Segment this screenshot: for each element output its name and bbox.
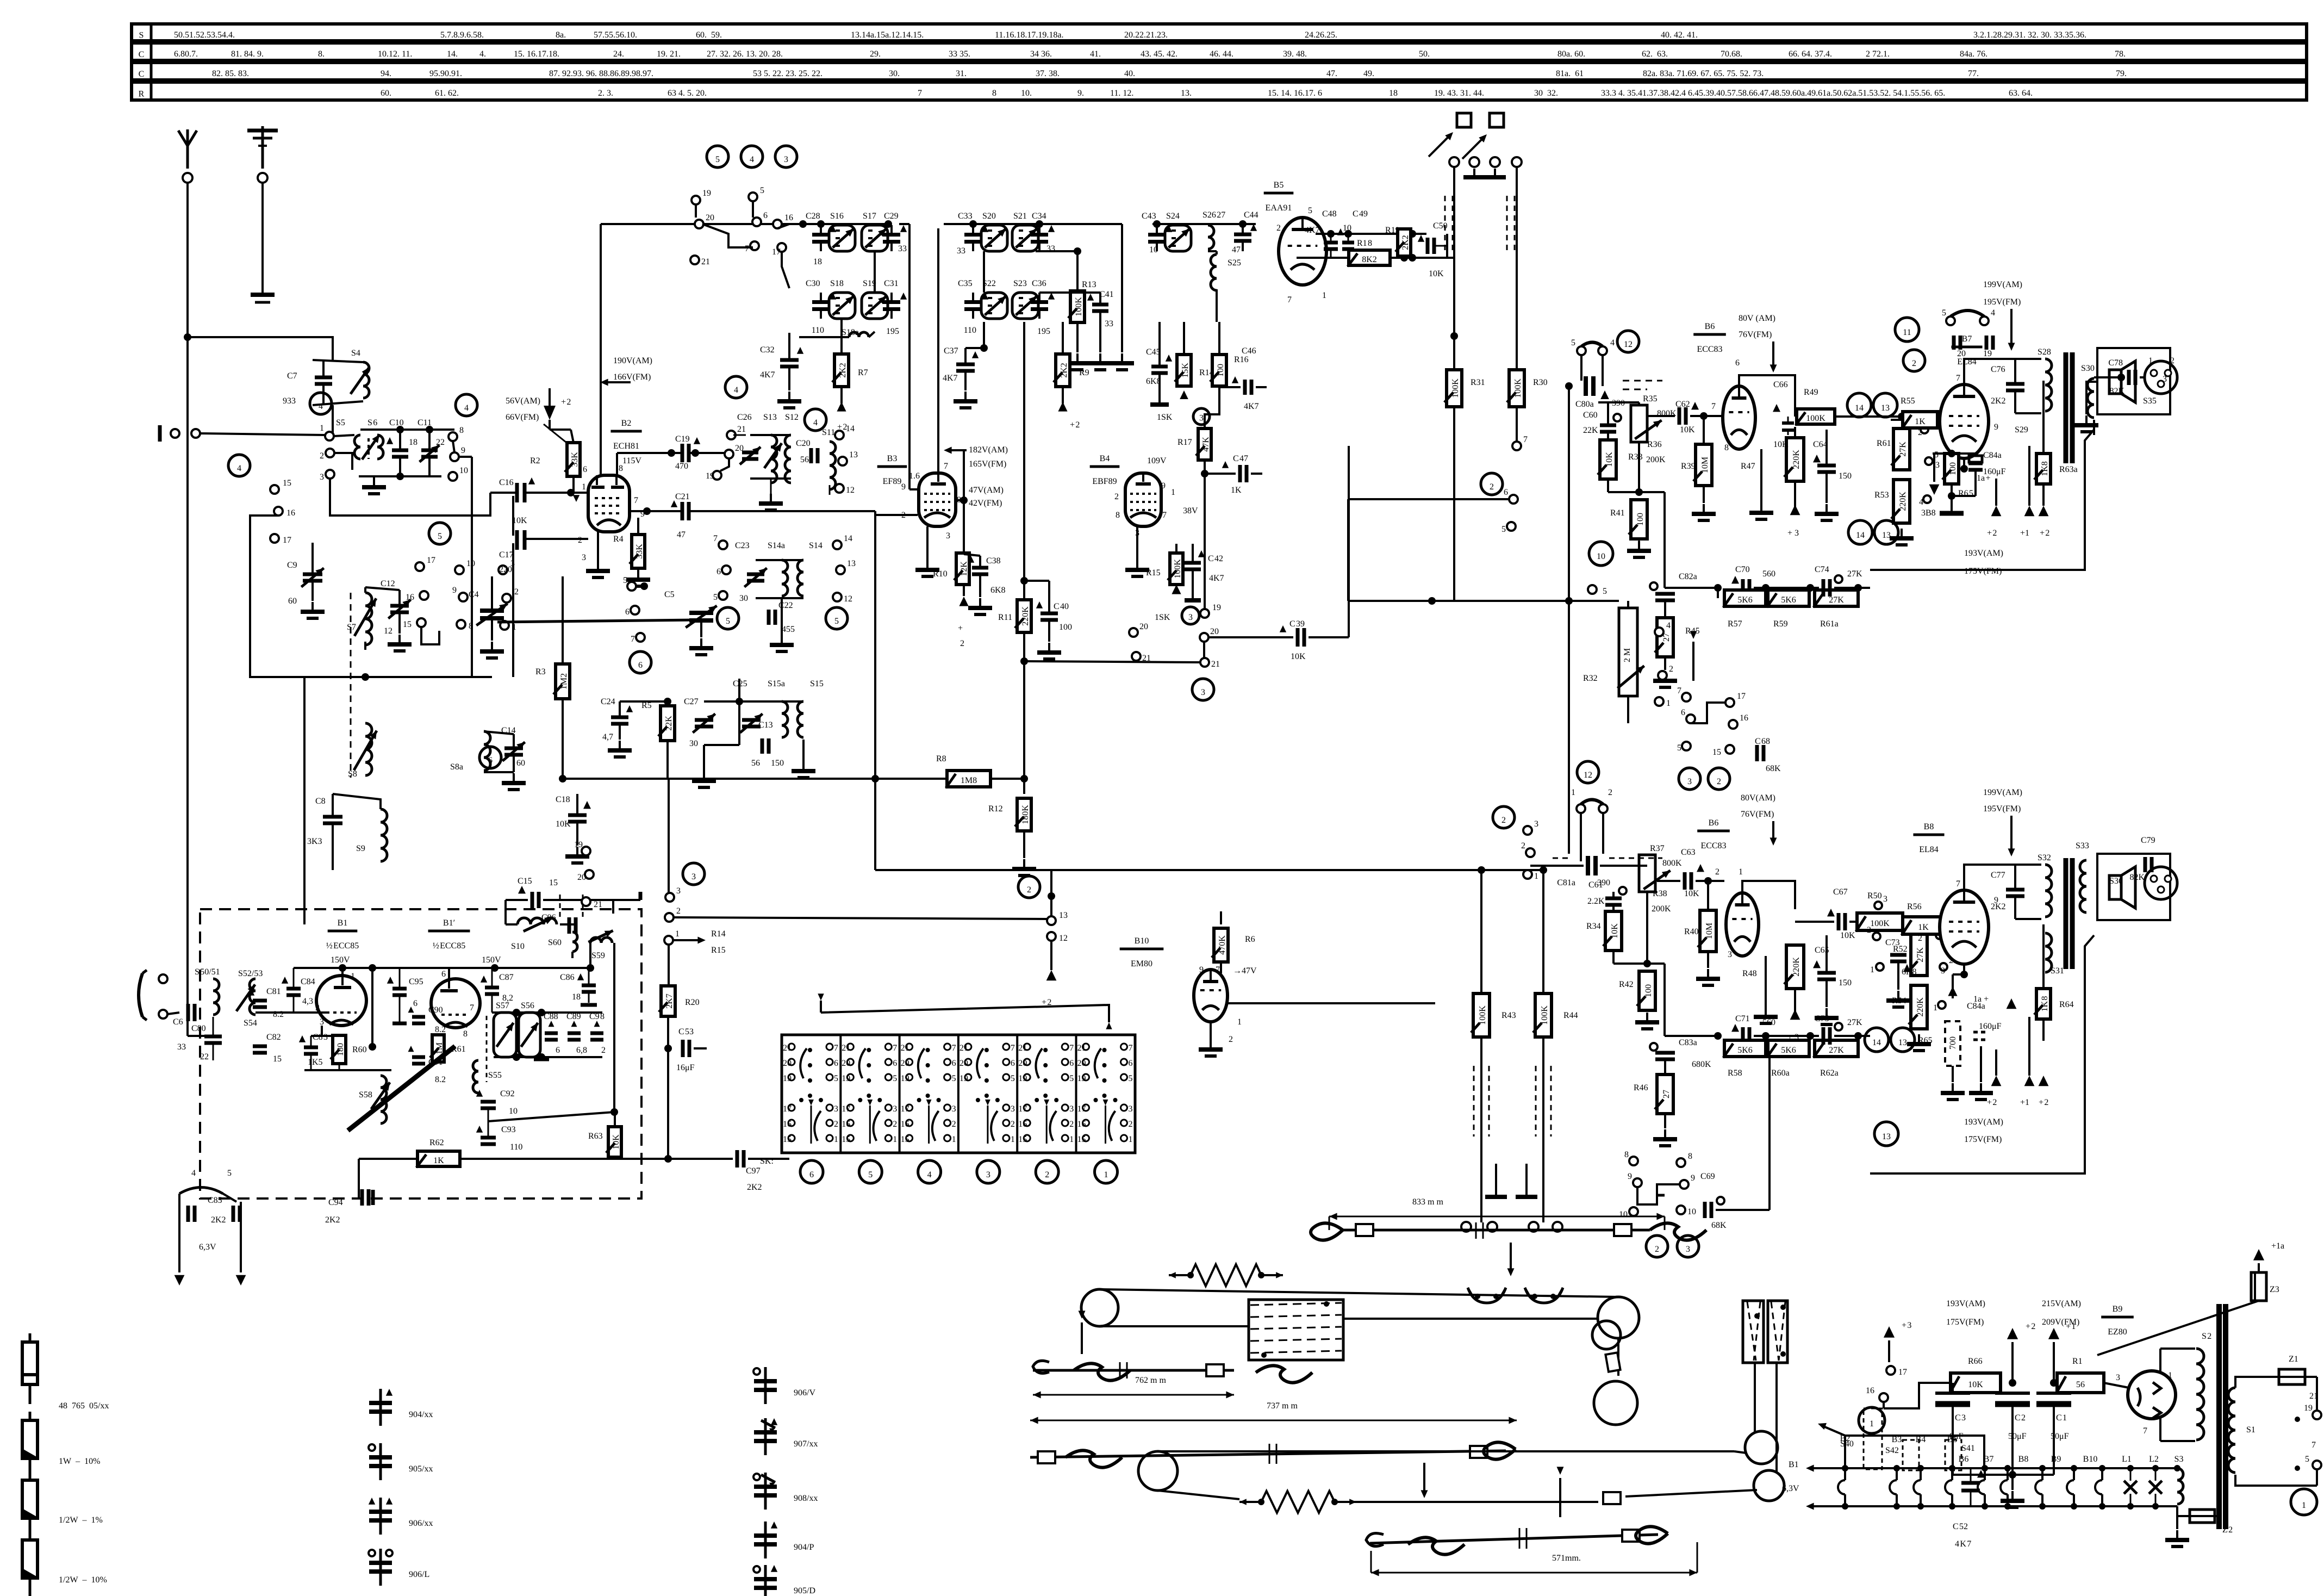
svg-text:10: 10 [509, 1107, 518, 1116]
resistor R52 [1911, 934, 1927, 976]
circled 10 [1589, 542, 1613, 566]
svg-text:15: 15 [403, 620, 412, 629]
resistor R46 [1657, 1075, 1673, 1114]
svg-text:R37: R37 [1650, 844, 1665, 853]
dial cord run 2 [1100, 1325, 1249, 1327]
circled 13 [1891, 1028, 1915, 1052]
svg-text:5: 5 [438, 532, 442, 541]
svg-text:2: 2 [834, 1120, 838, 1129]
svg-text:20: 20 [706, 213, 714, 222]
wire [1039, 291, 1100, 294]
tube heater [1951, 1468, 1953, 1480]
circled 2 [1903, 350, 1925, 371]
svg-text:S17: S17 [863, 212, 876, 221]
svg-text:18: 18 [1389, 89, 1398, 98]
wire [1023, 322, 1025, 581]
svg-text:4 K 7: 4 K 7 [1955, 1539, 1971, 1549]
svg-text:1: 1 [675, 929, 680, 939]
svg-text:17: 17 [283, 536, 291, 545]
svg-text:1: 1 [1739, 867, 1743, 877]
svg-text:SK:: SK: [760, 1157, 774, 1166]
svg-text:2: 2 [1114, 492, 1119, 501]
arrow left bottom [1810, 1505, 1831, 1507]
switch contact S5 1 [325, 432, 334, 440]
svg-text:33: 33 [898, 244, 907, 253]
svg-text:199V(AM): 199V(AM) [1983, 788, 2022, 797]
svg-text:5: 5 [227, 1169, 232, 1178]
svg-text:10: 10 [1619, 1210, 1628, 1219]
svg-text:R10: R10 [933, 569, 948, 579]
svg-text:13: 13 [1882, 1132, 1891, 1141]
svg-text:15: 15 [783, 1135, 792, 1144]
wire [448, 968, 450, 979]
circled 4 [228, 455, 250, 476]
svg-text:3: 3 [1188, 613, 1193, 622]
pulley [1598, 1297, 1639, 1338]
svg-text:C13: C13 [758, 721, 773, 730]
svg-text:B1′: B1′ [443, 918, 455, 928]
capacitor C2 [1995, 1392, 2030, 1395]
svg-text:R42: R42 [1619, 980, 1634, 989]
svg-text:195: 195 [886, 327, 899, 336]
svg-text:2: 2 [1918, 428, 1922, 437]
wire [261, 183, 264, 295]
wire [1617, 1338, 1619, 1376]
cord run 4 [1158, 1491, 1239, 1499]
svg-text:7: 7 [634, 496, 638, 505]
svg-text:50.51.52.53.54.4.: 50.51.52.53.54.4. [174, 30, 235, 40]
contact 4 [1655, 628, 1663, 636]
svg-text:C 52: C 52 [1953, 1522, 1968, 1531]
svg-text:1: 1 [1129, 1135, 1133, 1144]
svg-text:3: 3 [834, 1104, 838, 1114]
tube B6' ECC83 [1726, 893, 1759, 956]
contact 12 [835, 484, 844, 493]
svg-text:11. 12.: 11. 12. [1110, 89, 1133, 98]
svg-text:455: 455 [782, 625, 795, 634]
svg-text:175V(FM): 175V(FM) [1946, 1318, 1984, 1327]
wire [701, 620, 739, 679]
svg-text:2: 2 [1501, 816, 1506, 825]
svg-text:2: 2 [1045, 1170, 1049, 1179]
svg-text:150V: 150V [482, 955, 501, 965]
supply 3B8 [1929, 485, 1940, 495]
wire dashed [1553, 858, 1569, 859]
wire [1297, 257, 1355, 259]
contact 5 [749, 192, 757, 201]
wire [1121, 224, 1123, 352]
svg-text:27K: 27K [1829, 595, 1844, 605]
svg-text:S8: S8 [348, 769, 357, 779]
svg-text:C6: C6 [173, 1017, 183, 1027]
svg-text:175V(FM): 175V(FM) [1964, 1135, 2002, 1144]
svg-text:14: 14 [1855, 403, 1864, 413]
svg-text:10K: 10K [1773, 440, 1789, 449]
svg-text:17: 17 [1018, 1104, 1027, 1114]
speaker S36 [2109, 875, 2121, 899]
svg-text:R13: R13 [1082, 280, 1096, 289]
contact 9 [459, 593, 468, 601]
svg-text:R8: R8 [936, 754, 946, 763]
svg-text:2. 3.: 2. 3. [598, 89, 613, 98]
svg-text:3: 3 [952, 1104, 956, 1114]
svg-text:7: 7 [713, 534, 718, 543]
svg-text:S41: S41 [1961, 1444, 1975, 1453]
svg-text:100K: 100K [1540, 1005, 1549, 1025]
svg-text:C28: C28 [806, 212, 820, 221]
resistor R9 [1056, 354, 1070, 387]
S3 winding [2177, 1468, 2183, 1504]
svg-text:47: 47 [677, 530, 686, 539]
svg-text:R9: R9 [1079, 368, 1089, 377]
node [664, 698, 671, 705]
wire [1348, 498, 1509, 500]
svg-text:7: 7 [834, 1044, 838, 1053]
svg-text:C18: C18 [556, 795, 570, 804]
svg-text:+ 1: + 1 [2066, 1322, 2076, 1331]
svg-text:21: 21 [783, 1044, 792, 1053]
svg-text:41.: 41. [1090, 49, 1101, 59]
svg-text:13: 13 [1059, 911, 1068, 920]
wire [2177, 1515, 2190, 1517]
wire [1952, 1404, 1954, 1475]
svg-text:S18: S18 [830, 279, 844, 288]
svg-text:Z3: Z3 [2270, 1285, 2279, 1294]
resistor R65 [1945, 454, 1959, 484]
node [1565, 382, 1573, 390]
svg-text:C83a: C83a [1679, 1038, 1697, 1047]
tube heater [2007, 1468, 2009, 1480]
svg-text:60: 60 [288, 597, 297, 606]
svg-text:6: 6 [893, 1059, 897, 1068]
svg-text:4: 4 [1919, 498, 1923, 507]
capacitor C3 [1952, 1383, 1954, 1392]
wire [1347, 499, 1349, 601]
svg-text:1: 1 [1171, 488, 1175, 497]
svg-text:2K2: 2K2 [325, 1215, 340, 1225]
svg-text:S15: S15 [810, 679, 824, 688]
capacitor C81a [1586, 856, 1590, 875]
svg-text:5: 5 [1011, 1074, 1015, 1083]
svg-text:B10: B10 [2083, 1455, 2098, 1464]
svg-text:R15: R15 [711, 946, 726, 955]
svg-text:20: 20 [1077, 1059, 1086, 1068]
svg-text:C26: C26 [737, 413, 752, 422]
svg-text:R16: R16 [1234, 355, 1249, 364]
circled 6 [479, 747, 501, 768]
svg-text:C34: C34 [1032, 212, 1046, 221]
svg-text:6.80.7.: 6.80.7. [174, 49, 198, 59]
svg-text:+1: +1 [2020, 529, 2029, 538]
svg-text:21: 21 [1018, 1044, 1027, 1053]
svg-text:B1: B1 [1789, 1460, 1799, 1469]
svg-text:16μF: 16μF [676, 1063, 695, 1072]
svg-text:+ 2: + 2 [2039, 1098, 2048, 1107]
svg-text:7: 7 [1129, 1044, 1133, 1053]
svg-text:4,3: 4,3 [302, 997, 313, 1006]
svg-text:22K: 22K [664, 716, 674, 731]
contact 19 [713, 471, 721, 480]
dashed enclosure FM tuner B1 [200, 909, 641, 1198]
svg-text:B8: B8 [1924, 822, 1934, 831]
cord [1343, 1318, 1598, 1320]
supply +3 [1790, 505, 1800, 515]
svg-text:94.: 94. [381, 69, 391, 78]
svg-text:2: 2 [676, 906, 681, 916]
svg-text:10K: 10K [512, 516, 527, 525]
svg-text:R56: R56 [1907, 902, 1922, 911]
svg-text:C 40: C 40 [1054, 602, 1069, 611]
svg-text:7: 7 [470, 1003, 474, 1013]
svg-text:16: 16 [901, 1120, 909, 1129]
svg-text:R57: R57 [1728, 619, 1742, 629]
wire [756, 559, 803, 561]
ground [1918, 1034, 1920, 1044]
svg-text:66V(FM): 66V(FM) [506, 413, 539, 422]
svg-text:S10: S10 [511, 942, 525, 951]
svg-text:19: 19 [1212, 603, 1221, 612]
svg-text:16: 16 [783, 1120, 792, 1129]
svg-text:7: 7 [2143, 1426, 2147, 1436]
svg-text:C60: C60 [1583, 411, 1598, 420]
resistor R62a [1815, 1040, 1858, 1057]
svg-text:4K7: 4K7 [943, 374, 958, 383]
svg-text:14: 14 [1872, 1038, 1881, 1047]
svg-text:1: 1 [1104, 1170, 1108, 1179]
dial cord run 1 [1100, 1289, 1618, 1297]
svg-text:R3: R3 [535, 667, 546, 676]
svg-text:C90: C90 [428, 1005, 443, 1015]
svg-text:2K7: 2K7 [665, 993, 674, 1009]
svg-text:1: 1 [582, 482, 586, 492]
svg-text:5: 5 [1129, 1074, 1133, 1083]
core [2216, 1304, 2222, 1529]
circled 2 [1708, 768, 1730, 790]
antenna [186, 129, 189, 169]
svg-text:C 2: C 2 [2015, 1413, 2026, 1423]
svg-text:21: 21 [959, 1044, 968, 1053]
contact 5 [627, 582, 636, 591]
contact 20 [695, 220, 703, 228]
wire [874, 511, 876, 870]
svg-text:B3: B3 [887, 454, 898, 463]
svg-text:16: 16 [1866, 1386, 1874, 1395]
contact 7 [636, 633, 645, 642]
tube B5 EAA91 [1279, 218, 1326, 285]
svg-text:10K: 10K [1429, 269, 1444, 278]
svg-text:27K: 27K [1898, 442, 1908, 457]
wire feedback 2 [1870, 935, 2094, 1173]
svg-text:Z1: Z1 [2289, 1355, 2298, 1364]
supply arrow +2 [837, 402, 846, 412]
svg-text:40. 42. 41.: 40. 42. 41. [1661, 30, 1698, 40]
supply +2 [2007, 1328, 2018, 1339]
wire [948, 449, 967, 451]
circled 2 [1018, 876, 1040, 898]
svg-text:6: 6 [1681, 708, 1685, 717]
svg-text:100: 100 [1948, 462, 1958, 475]
resistor R14 [1177, 355, 1191, 386]
wire anode [1964, 359, 2041, 384]
svg-text:80a. 60.: 80a. 60. [1557, 49, 1585, 59]
svg-text:11: 11 [1903, 328, 1911, 337]
svg-text:1: 1 [952, 1135, 956, 1144]
svg-text:40.: 40. [1124, 69, 1135, 78]
svg-text:S30: S30 [2081, 364, 2095, 373]
svg-text:R: R [139, 90, 145, 99]
svg-text:15: 15 [1077, 1135, 1086, 1144]
svg-text:195V(FM): 195V(FM) [1983, 804, 2021, 813]
svg-text:12: 12 [384, 626, 392, 636]
svg-text:3: 3 [2163, 375, 2167, 384]
wire [1663, 492, 1666, 588]
svg-text:10K: 10K [612, 1134, 621, 1150]
svg-text:C85: C85 [208, 1196, 222, 1205]
svg-text:3: 3 [946, 531, 950, 541]
svg-text:2: 2 [1521, 841, 1525, 850]
svg-text:33K: 33K [570, 452, 580, 467]
contact 3 [1523, 826, 1532, 835]
svg-text:1K5: 1K5 [308, 1058, 323, 1067]
wire dashed [1623, 380, 1662, 382]
svg-text:571mm.: 571mm. [1552, 1554, 1581, 1563]
svg-text:4: 4 [813, 418, 818, 427]
svg-text:2: 2 [601, 1046, 606, 1055]
svg-text:21: 21 [594, 900, 602, 909]
input cable symbol [139, 973, 142, 1017]
svg-text:1: 1 [1571, 788, 1575, 797]
wire [2094, 376, 2124, 378]
svg-text:6: 6 [583, 465, 587, 474]
wire [341, 968, 344, 976]
svg-text:100K: 100K [1451, 378, 1460, 398]
svg-text:S5: S5 [336, 418, 345, 427]
contact 4 [1923, 495, 1931, 503]
tube B8 EL84 [1940, 890, 1989, 964]
svg-text:ECC83: ECC83 [1697, 345, 1722, 354]
svg-text:17: 17 [427, 556, 435, 565]
svg-text:1K: 1K [1231, 486, 1242, 495]
svg-text:77.: 77. [1968, 69, 1979, 78]
svg-text:C67: C67 [1833, 887, 1848, 897]
contact 8 [448, 432, 457, 441]
resistor R53 [1893, 480, 1910, 523]
svg-text:S42: S42 [1885, 1446, 1899, 1455]
svg-text:4.: 4. [479, 49, 486, 59]
ground [703, 771, 705, 781]
ground [1646, 1013, 1648, 1022]
svg-text:56: 56 [751, 759, 760, 768]
svg-text:S35: S35 [2143, 396, 2157, 406]
svg-text:8.2: 8.2 [435, 1075, 446, 1084]
wire bus AVC [563, 778, 1024, 780]
svg-text:27K: 27K [1829, 1046, 1844, 1055]
svg-text:R62a: R62a [1820, 1069, 1839, 1078]
svg-text:R4: R4 [613, 535, 624, 544]
coil S18a [849, 332, 869, 337]
svg-text:3: 3 [1686, 1245, 1690, 1254]
svg-text:EF89: EF89 [883, 477, 902, 486]
svg-text:21: 21 [1077, 1044, 1086, 1053]
svg-text:13: 13 [1882, 531, 1891, 540]
svg-text:12: 12 [846, 486, 855, 495]
arrow [1559, 1478, 1561, 1517]
svg-text:19: 19 [702, 189, 711, 198]
svg-text:C69: C69 [1700, 1172, 1715, 1181]
contact 6 [1509, 495, 1518, 504]
svg-text:2: 2 [2170, 356, 2175, 365]
wire [1023, 632, 1025, 794]
ground [1048, 643, 1050, 653]
svg-text:C96: C96 [541, 913, 556, 922]
svg-text:8.2: 8.2 [435, 1025, 446, 1034]
capacitor C1 [2053, 1383, 2054, 1392]
wire to contacts [1870, 567, 1871, 588]
svg-text:B1: B1 [338, 918, 348, 928]
svg-text:2: 2 [960, 639, 964, 648]
contact 12 [1047, 932, 1056, 941]
tube B1' triode [431, 979, 480, 1028]
svg-text:908/xx: 908/xx [794, 1494, 818, 1503]
speaker S36 [2109, 370, 2121, 394]
resistor R6 [1214, 928, 1228, 962]
svg-text:C82a: C82a [1679, 572, 1697, 581]
svg-text:16: 16 [1077, 1120, 1086, 1129]
svg-text:S52/53: S52/53 [238, 969, 263, 978]
wire [1024, 661, 1200, 662]
svg-text:C29: C29 [884, 212, 899, 221]
svg-text:C84a: C84a [1983, 451, 2002, 460]
ground symbol [261, 126, 264, 169]
wire [1612, 892, 1615, 898]
circled 3 [1192, 679, 1214, 700]
svg-text:5: 5 [760, 186, 764, 195]
svg-text:C9 8: C9 8 [589, 1012, 605, 1021]
svg-text:700: 700 [1948, 1036, 1958, 1049]
svg-text:13: 13 [1881, 403, 1890, 413]
svg-text:R49: R49 [1804, 388, 1818, 397]
wire [1036, 250, 1077, 252]
svg-text:680K: 680K [1692, 1060, 1711, 1069]
cord [1356, 1501, 1598, 1503]
wire [2001, 1382, 2057, 1383]
node [559, 775, 566, 783]
circled 5 [707, 146, 728, 167]
capacitor C97 [736, 1150, 739, 1167]
headphone jack [2145, 361, 2177, 394]
svg-text:R46: R46 [1634, 1083, 1648, 1092]
svg-text:27K: 27K [1847, 569, 1862, 579]
wire [1891, 419, 1903, 421]
contact 8 [457, 620, 465, 629]
svg-text:933: 933 [283, 396, 296, 406]
contact 2 [665, 913, 674, 922]
wire [1648, 415, 1675, 417]
ground [398, 635, 401, 644]
svg-text:2: 2 [1608, 788, 1612, 797]
wire dashed screens [1473, 1066, 1475, 1137]
headphone jack 2 [2145, 867, 2177, 899]
arrow [1510, 1243, 1512, 1272]
svg-text:1/2W – 10%: 1/2W – 10% [59, 1575, 107, 1585]
capacitor C40 [1040, 612, 1058, 616]
svg-text:10K: 10K [1968, 1380, 1983, 1389]
svg-text:13: 13 [849, 450, 858, 459]
wire [690, 510, 875, 512]
svg-text:2: 2 [578, 536, 582, 545]
circled 4 [310, 393, 332, 414]
svg-text:5: 5 [1571, 338, 1575, 347]
